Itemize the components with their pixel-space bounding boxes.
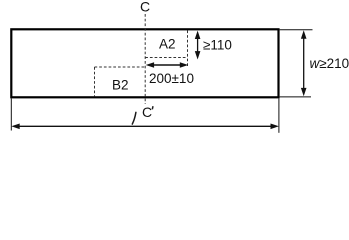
l dimension extension lines xyxy=(10,99,12,131)
svg-text:B2: B2 xyxy=(112,78,129,93)
w dimension extension lines xyxy=(280,29,313,31)
sample box B2 (dashed top and left edges) xyxy=(95,66,146,68)
svg-text:A2: A2 xyxy=(159,37,176,52)
sample box A2 (dashed right and bottom edges) xyxy=(187,30,189,68)
centerline C-C' (dashed) xyxy=(144,14,146,104)
specimen outline rectangle xyxy=(11,29,278,97)
svg-text:C: C xyxy=(140,0,150,15)
dimension w>=210 (vertical double arrow) xyxy=(301,30,307,96)
dimension l (horizontal double arrow) xyxy=(11,124,279,130)
label l (italic) xyxy=(132,112,136,124)
svg-text:≥110: ≥110 xyxy=(203,37,232,52)
dimension 200+-10 (horizontal double arrow) xyxy=(146,62,189,68)
svg-text:w≥210: w≥210 xyxy=(310,56,349,71)
svg-text:200±10: 200±10 xyxy=(149,71,194,86)
dimension >=110 (vertical double arrow) xyxy=(195,31,201,60)
svg-text:C: C xyxy=(142,104,152,120)
